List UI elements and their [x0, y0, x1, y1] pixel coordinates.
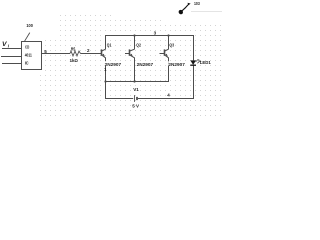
wire bottom rail net 4	[138, 98, 194, 100]
svg-text:5 V: 5 V	[132, 104, 139, 109]
grid dots	[39, 15, 222, 116]
node junction dot emitter rail Q1	[104, 80, 106, 82]
wire Q3 collector up	[168, 36, 170, 49]
wire Q1 collector up	[105, 36, 107, 49]
wire input1	[2, 48, 22, 50]
value 2N2907 Q3	[168, 61, 185, 66]
svg-text:4011: 4011	[25, 52, 32, 57]
transistor Q3	[160, 49, 169, 58]
wire IC output net 5	[42, 53, 71, 55]
resistor R5	[70, 51, 81, 56]
svg-text:2N2907: 2N2907	[105, 62, 122, 67]
transistor Q1	[102, 49, 106, 58]
svg-text:2N2907: 2N2907	[137, 62, 154, 67]
wire bottom rail left of battery	[106, 98, 134, 100]
wire Q1 emitter down	[105, 58, 107, 100]
svg-text:Q3: Q3	[169, 42, 174, 47]
svg-text:1: 1	[104, 67, 107, 72]
node junction dot top rail Q2	[133, 34, 135, 36]
svg-text:CD: CD	[25, 44, 30, 49]
wire Q3 emitter down	[168, 58, 170, 83]
IC CD4011 box	[22, 42, 42, 70]
wire Q2 collector up	[134, 36, 136, 49]
wire input2	[1, 56, 22, 58]
wire net 2 to Q1 base	[81, 53, 102, 55]
svg-text:3: 3	[154, 31, 157, 36]
svg-text:Q2: Q2	[136, 42, 141, 47]
svg-text:100: 100	[26, 23, 33, 28]
svg-text:LED1: LED1	[200, 60, 211, 65]
svg-text:R5: R5	[71, 46, 76, 51]
svg-text:IC: IC	[25, 61, 29, 66]
svg-text:4: 4	[167, 93, 170, 98]
wire input3	[2, 63, 22, 65]
svg-text:Q1: Q1	[107, 42, 112, 47]
label CD 4011 IC	[25, 44, 32, 65]
leader line 100	[25, 33, 30, 42]
value 2N2907 Q1	[104, 61, 121, 66]
battery V1	[135, 95, 138, 102]
svg-text:1kΩ: 1kΩ	[70, 58, 79, 63]
wire rail down to LED anode	[193, 36, 195, 61]
LED LED1	[190, 59, 201, 65]
faint underline right of 103	[191, 11, 222, 13]
node junction dot top rail Q3	[167, 34, 169, 36]
wire LED cathode down	[193, 65, 195, 99]
wire top rail net 3	[105, 35, 194, 37]
transistor Q2	[125, 49, 135, 58]
svg-text:2N2907: 2N2907	[168, 62, 185, 67]
node junction dot emitter rail Q2	[133, 80, 135, 82]
wire emitter rail net 1	[106, 81, 169, 83]
wire Q2 emitter down	[134, 58, 136, 83]
svg-text:103: 103	[194, 1, 200, 6]
cursor arrow 103	[178, 3, 191, 15]
svg-text:i: i	[8, 44, 10, 49]
svg-text:V1: V1	[133, 87, 139, 92]
svg-text:2: 2	[87, 48, 90, 53]
